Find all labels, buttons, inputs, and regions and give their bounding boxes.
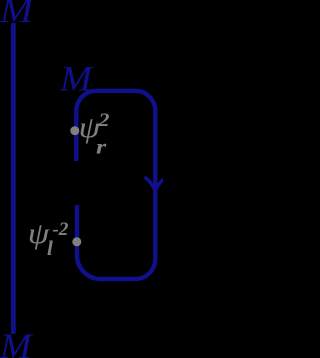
svg-text:M: M [0, 0, 35, 30]
svg-text:2: 2 [97, 110, 110, 131]
svg-text:r: r [96, 137, 106, 159]
svg-text:-2: -2 [52, 219, 69, 240]
svg-text:M: M [0, 326, 34, 358]
svg-text:M: M [59, 59, 94, 99]
